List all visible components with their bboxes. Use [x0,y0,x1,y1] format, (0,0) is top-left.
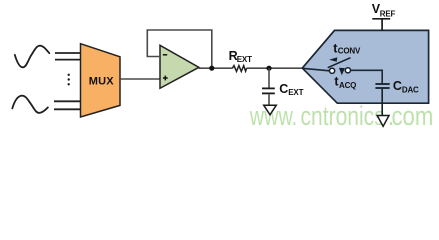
svg-text:MUX: MUX [89,75,115,87]
switch contact circle right [345,68,350,73]
wire: input pair 1 upper [55,52,81,54]
watermark www.cntronics.com (under schematic) [249,102,433,132]
wire: mux output to op-amp + input [120,78,160,80]
svg-text:cntronics: cntronics [301,102,385,131]
switch contact circle left [330,68,335,73]
mux U1 body [81,44,121,117]
svg-text:EXT: EXT [237,55,252,64]
wire: junction down to C_EXT [268,68,270,87]
wire: feedback loop [147,30,212,68]
wire: op-amp output to resistor [199,67,233,69]
svg-text:C: C [279,82,288,96]
source sine symbol 1 [15,46,50,68]
wire: C_EXT to ground [268,94,270,105]
switch blade [328,58,351,68]
svg-text:ACQ: ACQ [339,81,356,90]
svg-text:EXT: EXT [288,88,303,97]
wire: resistor to ADC [247,67,303,69]
wire: C_DAC to ground [381,89,383,116]
ground symbol under C_DAC [377,116,389,127]
ground symbol under C_EXT [264,105,277,115]
ADC block (pentagon) [302,30,428,103]
svg-text:CONV: CONV [338,46,361,55]
wire: switch to C_DAC [351,70,383,83]
svg-text:com: com [392,102,434,131]
resistor R_EXT zigzag [232,66,246,72]
wire: V_REF into ADC [381,19,383,30]
op-amp A1 triangle [160,45,199,88]
wire: ADC input to switch [303,68,330,71]
op-amp minus sign [163,54,167,56]
source sine symbol 2 [12,96,48,113]
svg-text:DAC: DAC [402,85,419,94]
capacitor C_EXT plates [262,87,275,89]
wire: input pair 2 upper [54,100,81,102]
svg-text:C: C [393,79,402,93]
wire: input pair 2 lower [54,108,81,110]
node: op-amp output junction [209,66,214,71]
switch motion arrowhead down [339,68,345,75]
ellipsis dots between inputs [68,74,70,76]
wire: input pair 1 lower [55,59,81,61]
V_REF terminal bar [372,18,390,20]
op-amp plus sign [163,77,168,79]
svg-text:REF: REF [380,10,396,19]
node: C_EXT junction [266,66,271,71]
capacitor C_DAC plates [375,83,389,85]
switch motion arrowhead upper-left [329,57,337,62]
